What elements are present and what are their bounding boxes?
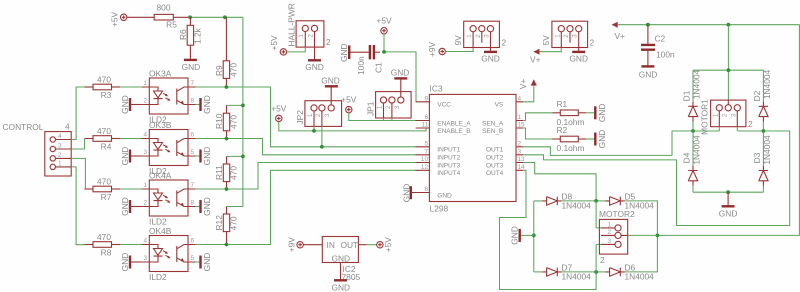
wire IC2 out to +5V <box>367 244 377 246</box>
svg-text:12: 12 <box>421 164 429 171</box>
ground above JP2 pin3 <box>321 76 340 87</box>
svg-text:GND: GND <box>569 54 588 64</box>
svg-text:GND: GND <box>120 197 130 216</box>
svg-text:R3: R3 <box>101 90 112 100</box>
svg-text:L298: L298 <box>430 204 449 214</box>
ground at OK4A pin2 <box>120 197 142 216</box>
ground at OK4B pin5 <box>196 253 212 272</box>
svg-text:GND: GND <box>120 147 130 166</box>
capacitor C1 (100n) <box>349 45 383 75</box>
svg-text:R11: R11 <box>214 165 224 180</box>
svg-text:MOTOR1: MOTOR1 <box>700 99 710 135</box>
svg-text:2: 2 <box>315 113 322 117</box>
svg-text:3: 3 <box>143 149 147 156</box>
wire JP2 pin2 to INPUT1 <box>321 126 323 146</box>
svg-text:R9: R9 <box>214 65 224 76</box>
svg-text:ENABLE_A: ENABLE_A <box>437 120 471 127</box>
wire +5V to ENABLE_A <box>349 113 416 121</box>
svg-text:3: 3 <box>607 238 611 245</box>
resistor R3 (470) <box>85 75 121 100</box>
svg-text:470: 470 <box>97 75 111 85</box>
svg-text:JP1: JP1 <box>366 101 376 116</box>
node dot motor1 feed <box>727 23 731 27</box>
svg-text:2: 2 <box>590 38 595 48</box>
wire OK3B pin6 to INPUT2 <box>196 139 416 155</box>
supply +5V (HALL-PWR) <box>269 35 287 55</box>
wire C1 node to IC3 VCC <box>384 52 416 102</box>
wire motor1 bridge top rail <box>693 69 763 71</box>
svg-text:1N4004: 1N4004 <box>562 201 592 211</box>
svg-text:6: 6 <box>424 114 428 121</box>
node dot motor2 gnd <box>532 234 536 238</box>
capacitor C2 (100n) <box>641 25 675 66</box>
diode D3 (1N4004) <box>752 131 772 192</box>
svg-text:GND: GND <box>719 209 738 219</box>
svg-text:R7: R7 <box>101 192 112 202</box>
wire motor2 pin1 <box>596 201 601 228</box>
svg-text:4: 4 <box>58 133 62 140</box>
svg-text:1N4004: 1N4004 <box>562 271 592 281</box>
svg-text:INPUT2: INPUT2 <box>437 155 460 162</box>
svg-text:R6: R6 <box>178 29 188 40</box>
svg-text:OUT: OUT <box>341 240 359 250</box>
supply +5V (ENABLE_A) <box>341 95 357 113</box>
node dot bridge bottom <box>726 190 730 194</box>
svg-text:3: 3 <box>143 255 147 262</box>
svg-text:IN: IN <box>327 240 335 250</box>
connector JP1 <box>366 78 411 118</box>
svg-text:470: 470 <box>229 216 239 230</box>
svg-text:R2: R2 <box>557 125 568 135</box>
svg-text:R5: R5 <box>166 20 177 30</box>
svg-text:1: 1 <box>377 105 384 109</box>
svg-text:R12: R12 <box>214 215 224 231</box>
IC U3 L298 box <box>412 84 525 214</box>
IC2 7805 regulator <box>303 237 366 283</box>
svg-text:CONTROL: CONTROL <box>3 122 44 132</box>
node dot C1/+5V <box>382 50 386 54</box>
svg-text:GND: GND <box>182 62 201 72</box>
R11 feed link <box>227 155 243 157</box>
wire VS to V+ <box>523 86 534 102</box>
svg-text:13: 13 <box>518 156 526 163</box>
svg-text:3: 3 <box>324 113 331 117</box>
svg-text:100n: 100n <box>356 56 366 75</box>
wire CONTROL pin4 to R3 <box>71 87 84 140</box>
wire motor1 bridge bottom rail <box>693 191 763 193</box>
svg-text:3: 3 <box>572 34 579 38</box>
svg-text:GND: GND <box>597 130 607 149</box>
wire +5V jumper feed <box>279 122 314 131</box>
svg-text:GND: GND <box>339 43 349 62</box>
R10 feed link <box>227 104 243 106</box>
diode D1 (1N4004) <box>682 69 702 131</box>
optocoupler OK4B <box>142 226 196 282</box>
svg-text:3: 3 <box>394 105 401 109</box>
svg-text:4: 4 <box>143 238 147 245</box>
svg-text:7: 7 <box>191 80 195 87</box>
supply V+ (top right) <box>612 22 626 41</box>
svg-text:470: 470 <box>97 126 111 136</box>
ground at motor2 bridge <box>509 226 534 245</box>
svg-text:8: 8 <box>191 200 195 207</box>
svg-text:5: 5 <box>191 255 195 262</box>
node dot B (OUT2/D2/D3) <box>762 129 766 133</box>
node dot R10 feed <box>241 104 245 108</box>
node dot bridge top <box>727 68 731 72</box>
svg-text:6: 6 <box>191 132 195 139</box>
ground below HALL-PWR pin2 <box>305 47 324 72</box>
node dot R6 top <box>188 15 192 19</box>
ground below IC2 <box>331 263 350 292</box>
svg-text:GND: GND <box>437 192 452 199</box>
svg-text:ILD2: ILD2 <box>149 272 167 282</box>
svg-text:+5V: +5V <box>341 95 357 105</box>
svg-text:+9V: +9V <box>287 237 297 253</box>
supply +9V (IC2) <box>287 237 304 253</box>
svg-text:1: 1 <box>466 34 473 38</box>
svg-text:5V: 5V <box>541 35 551 46</box>
R12 feed link (rail end) <box>227 206 243 208</box>
ground at OK3B pin5 <box>196 147 212 166</box>
svg-text:8: 8 <box>424 186 428 193</box>
wire R3 to OK3A pin1 <box>120 86 142 88</box>
wire OUT4 to motor2 bridge bottom <box>500 170 597 289</box>
svg-text:V+: V+ <box>518 79 528 90</box>
svg-text:470: 470 <box>229 115 239 129</box>
svg-text:GND: GND <box>321 76 340 86</box>
svg-text:GND: GND <box>202 197 212 216</box>
wire CONTROL pin2 to R7 <box>71 158 85 189</box>
connector 9V <box>453 21 507 47</box>
svg-text:1N4004: 1N4004 <box>692 135 702 165</box>
ground at OK3A pin8 <box>196 95 212 114</box>
ground left of C1 <box>339 43 349 62</box>
wire motor2 gnd-side vertical <box>533 201 535 272</box>
svg-text:ILD2: ILD2 <box>149 217 167 227</box>
svg-text:1N4004: 1N4004 <box>762 135 772 165</box>
wire OK4B pin6 to INPUT4 <box>196 170 416 244</box>
node dot R9 top <box>223 15 227 19</box>
svg-text:470: 470 <box>229 63 239 77</box>
supply +5V (above C1) <box>376 16 392 34</box>
svg-text:15: 15 <box>518 122 526 129</box>
wire V+ to 5V connector pin1 <box>540 48 562 52</box>
svg-text:R1: R1 <box>557 99 568 109</box>
wire SEN_A to R1 <box>523 113 552 121</box>
svg-text:2: 2 <box>721 113 728 117</box>
svg-text:GND: GND <box>331 253 350 263</box>
node dot R10/OK3B <box>225 137 229 141</box>
svg-text:OK3B: OK3B <box>149 120 172 130</box>
svg-text:GND: GND <box>402 184 412 203</box>
svg-text:V+: V+ <box>615 31 626 41</box>
svg-text:INPUT4: INPUT4 <box>437 170 460 177</box>
wire MOTOR1 pin3 drop <box>736 127 738 131</box>
connector HALL-PWR <box>287 3 332 47</box>
node dot R9/OK3A <box>225 85 229 89</box>
wire OK3A pin7 to INPUT1 <box>196 87 416 147</box>
svg-text:2: 2 <box>748 119 753 129</box>
ground right of R2 <box>586 130 607 149</box>
svg-text:+5V: +5V <box>376 16 392 26</box>
resistor R1 (0.1ohm) <box>552 99 586 127</box>
svg-text:V+: V+ <box>530 55 541 65</box>
wire JP1 pin1 stub down <box>383 118 385 121</box>
svg-text:1N4004: 1N4004 <box>762 69 772 99</box>
wire JP1 pin2 to ENABLE_A <box>391 118 393 121</box>
wire OUT1 to motor1 bridge left <box>523 131 719 155</box>
node dot jumper feed <box>312 129 316 133</box>
svg-text:R10: R10 <box>214 113 224 129</box>
resistor R5 <box>127 3 190 30</box>
svg-text:VCC: VCC <box>437 102 451 109</box>
svg-text:2: 2 <box>502 38 507 48</box>
optocoupler OK4A <box>142 171 196 227</box>
supply V+ (VS pin) <box>518 79 537 90</box>
svg-text:OUT1: OUT1 <box>486 147 504 154</box>
ground above JP1 pin3 <box>391 68 410 79</box>
ground at OK3A pin2 <box>120 95 142 114</box>
connector JP2 <box>295 86 342 126</box>
connector MOTOR1 <box>700 99 754 135</box>
svg-text:2: 2 <box>143 200 147 207</box>
wire MOTOR1 pin1 drop <box>718 127 720 131</box>
node dot C2 top <box>646 23 650 27</box>
svg-text:100n: 100n <box>656 50 675 60</box>
resistor R4 (470) <box>85 126 121 151</box>
wire +5V stem to C1 node <box>383 34 385 52</box>
svg-text:GND: GND <box>202 147 212 166</box>
wire motor2 pin2 to V+ <box>628 234 658 236</box>
svg-text:OK3A: OK3A <box>149 69 172 79</box>
svg-text:1.2k: 1.2k <box>193 27 203 44</box>
svg-text:+5V: +5V <box>269 35 279 51</box>
svg-text:3: 3 <box>484 34 491 38</box>
svg-text:1: 1 <box>607 222 611 229</box>
svg-text:D1: D1 <box>682 90 692 101</box>
ground at IC3 pin8 <box>402 184 412 203</box>
svg-text:+5V: +5V <box>110 11 120 27</box>
wire +9V to 9V connector pin1 <box>445 48 473 52</box>
svg-text:10: 10 <box>421 156 429 163</box>
svg-text:1N4004: 1N4004 <box>625 271 655 281</box>
svg-text:470: 470 <box>97 232 111 242</box>
svg-text:4: 4 <box>518 95 522 102</box>
supply +5V (IC2 out) <box>377 237 393 253</box>
node dot A (OUT1/D1/D4) <box>691 129 695 133</box>
node dot R12/OK4B <box>225 243 229 247</box>
resistor R2 (0.1ohm) <box>552 125 586 153</box>
svg-text:9V: 9V <box>453 35 463 46</box>
ground below 5V connector pin3 <box>569 48 588 64</box>
svg-text:11: 11 <box>421 122 428 129</box>
svg-text:14: 14 <box>518 164 526 171</box>
wire JP2 pin1 to ENABLE_B <box>314 126 426 130</box>
svg-text:GND: GND <box>509 226 519 245</box>
ground below C2 <box>639 66 658 79</box>
svg-text:C2: C2 <box>655 34 666 44</box>
supply +5V (left of JP2) <box>271 104 287 122</box>
svg-text:OUT4: OUT4 <box>486 170 504 177</box>
resistor R7 (470) <box>85 177 121 202</box>
svg-text:6: 6 <box>191 238 195 245</box>
node dot R11 feed <box>241 155 245 159</box>
wire HALL-PWR pin1 to +5V <box>287 47 306 52</box>
ground at OK3B pin3 <box>120 147 142 166</box>
connector 5V <box>541 21 594 47</box>
ground below R6 <box>182 60 201 72</box>
svg-text:C1: C1 <box>374 62 384 73</box>
supply V+ (5V connector) <box>530 49 541 65</box>
svg-text:OK4B: OK4B <box>149 226 172 236</box>
svg-text:1: 1 <box>143 80 147 87</box>
svg-text:4: 4 <box>65 122 70 132</box>
svg-text:SEN_B: SEN_B <box>482 128 504 135</box>
svg-text:2: 2 <box>385 105 392 109</box>
svg-text:1: 1 <box>712 113 719 117</box>
svg-text:1: 1 <box>143 182 147 189</box>
wire R7 to OK4A pin1 <box>120 188 142 190</box>
svg-text:2: 2 <box>475 34 482 38</box>
svg-text:8: 8 <box>191 98 195 105</box>
connector CONTROL (4-pin) <box>45 122 71 177</box>
svg-text:OK4A: OK4A <box>149 171 172 181</box>
svg-text:IC3: IC3 <box>430 84 443 94</box>
svg-text:2: 2 <box>326 37 331 47</box>
wire CONTROL pin3 to R4 <box>71 139 84 150</box>
svg-text:D2: D2 <box>752 90 762 101</box>
svg-text:2: 2 <box>600 255 605 265</box>
svg-text:MOTOR2: MOTOR2 <box>599 209 635 219</box>
svg-text:2: 2 <box>58 152 62 159</box>
svg-text:470: 470 <box>229 166 239 180</box>
diode D8 (1N4004) <box>534 191 596 210</box>
optocoupler OK3A <box>142 69 196 125</box>
svg-text:D3: D3 <box>752 152 762 163</box>
resistor R6 (1.2k) <box>178 17 203 59</box>
svg-text:GND: GND <box>481 54 500 64</box>
wire R8 to OK4B pin4 <box>120 244 142 246</box>
resistor R11 (470 pullup) <box>214 156 239 189</box>
node dot motor2 V+ <box>656 234 660 238</box>
ground right of R1 <box>586 103 607 122</box>
resistor R9 (470 pullup) <box>214 17 239 87</box>
node dot R11/OK4A <box>225 187 229 191</box>
svg-text:2: 2 <box>143 98 147 105</box>
svg-text:GND: GND <box>639 70 658 80</box>
svg-text:GND: GND <box>120 253 130 272</box>
node dot JP2 pin2 / INPUT1 <box>320 145 324 149</box>
svg-text:GND: GND <box>391 68 410 78</box>
wire SEN_B to R2 <box>523 128 552 139</box>
wire OK4A pin7 to INPUT3 <box>196 163 416 190</box>
svg-text:5: 5 <box>424 140 428 147</box>
svg-text:JP2: JP2 <box>295 110 305 125</box>
svg-text:3: 3 <box>518 148 522 155</box>
resistor R8 (470) <box>85 232 121 257</box>
optocoupler OK3B <box>142 120 196 176</box>
svg-text:INPUT1: INPUT1 <box>437 147 460 154</box>
svg-text:3: 3 <box>730 113 737 117</box>
svg-text:GND: GND <box>202 95 212 114</box>
svg-text:7: 7 <box>424 148 428 155</box>
svg-text:OUT3: OUT3 <box>486 162 504 169</box>
wire R5 node to +5V rail corner <box>190 16 243 18</box>
svg-text:470: 470 <box>97 177 111 187</box>
svg-text:2: 2 <box>518 140 522 147</box>
svg-text:D4: D4 <box>682 152 692 163</box>
svg-text:7: 7 <box>191 182 195 189</box>
svg-text:1: 1 <box>307 113 314 117</box>
svg-text:OUT2: OUT2 <box>486 155 504 162</box>
wire R4 to OK3B pin4 <box>120 138 142 140</box>
connector MOTOR2 <box>599 209 635 265</box>
svg-text:GND: GND <box>120 95 130 114</box>
node dot motor2 bottom <box>594 270 598 274</box>
svg-text:R4: R4 <box>101 141 112 151</box>
svg-text:GND: GND <box>305 62 324 72</box>
wire V+ down to motor1 bridge <box>727 25 729 100</box>
svg-text:9: 9 <box>424 95 428 102</box>
svg-text:INPUT3: INPUT3 <box>437 162 460 169</box>
svg-text:VS: VS <box>495 102 504 109</box>
svg-text:4: 4 <box>143 132 147 139</box>
svg-text:2: 2 <box>307 34 314 38</box>
svg-text:2: 2 <box>607 229 611 236</box>
supply +9V (top) <box>427 41 445 57</box>
supply +5V (top left) <box>110 11 127 27</box>
svg-text:GND: GND <box>331 283 350 292</box>
diode D4 (1N4004) <box>682 131 702 192</box>
svg-text:1: 1 <box>58 160 62 167</box>
svg-text:+5V: +5V <box>383 237 393 253</box>
node dot motor2 top <box>594 199 598 203</box>
resistor R10 (470 pullup) <box>214 105 239 138</box>
wire CONTROL pin1 to R8 <box>71 167 84 245</box>
svg-text:GND: GND <box>597 103 607 122</box>
svg-text:GND: GND <box>202 253 212 272</box>
svg-text:R8: R8 <box>101 247 112 257</box>
wire motor2 pin3 <box>596 244 601 272</box>
svg-text:1: 1 <box>554 34 561 38</box>
svg-text:ENABLE_B: ENABLE_B <box>437 128 471 135</box>
ground below 9V connector pin3 <box>481 48 500 64</box>
wire OUT3 to motor2 bridge top <box>523 163 596 201</box>
svg-text:+9V: +9V <box>427 41 437 57</box>
ground at OK4B pin3 <box>120 253 142 272</box>
diode D7 (1N4004) <box>534 262 596 281</box>
svg-text:2: 2 <box>563 34 570 38</box>
svg-text:800: 800 <box>157 3 171 13</box>
svg-text:1: 1 <box>518 114 522 121</box>
diode D2 (1N4004) <box>752 69 772 131</box>
+5V rail vertical <box>242 17 244 206</box>
svg-text:0.1ohm: 0.1ohm <box>557 143 585 153</box>
svg-text:HALL-PWR: HALL-PWR <box>287 3 297 46</box>
svg-text:SEN_A: SEN_A <box>482 120 504 127</box>
wire V+ rail to right edge <box>618 25 800 236</box>
wire OUT2 to motor1 bridge right <box>523 131 790 226</box>
ground below motor1 bridge <box>719 192 738 218</box>
diode D5 (1N4004) <box>596 191 657 235</box>
svg-text:+5V: +5V <box>271 104 287 114</box>
svg-text:1N4004: 1N4004 <box>692 69 702 99</box>
resistor R12 (470 pullup) <box>214 207 239 245</box>
diode D6 (1N4004) <box>596 235 657 281</box>
svg-text:3: 3 <box>58 143 62 150</box>
svg-text:5: 5 <box>191 149 195 156</box>
